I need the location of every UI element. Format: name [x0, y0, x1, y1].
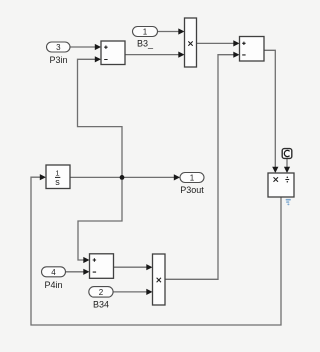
svg-text:B3_: B3_ [137, 39, 154, 49]
outport 1 oval P3out [180, 173, 204, 183]
arrowhead into Product1 input1 [178, 28, 184, 34]
wire Product2 to Sum2 minus input [165, 55, 235, 280]
arrowhead into Product2 input1 [146, 264, 152, 270]
divide block (x and divide) [268, 173, 294, 197]
svg-text:1: 1 [143, 28, 148, 37]
inport 1 oval B3_ [133, 27, 158, 37]
sum block Sum3 [90, 254, 114, 278]
junction node dot on integrator output [120, 175, 125, 180]
svg-text:P4in: P4in [44, 280, 62, 290]
arrowhead into Integrator [40, 174, 46, 180]
inport 2 oval B34 [89, 287, 113, 298]
svg-text:1: 1 [190, 174, 195, 183]
wire Sum1 to Product1 input2 [125, 54, 180, 56]
arrowhead into Divide input2 [284, 167, 290, 173]
wire Divide output feedback loop to Integrator [31, 177, 281, 325]
wire branch junction down to Sum3 plus input [78, 177, 122, 260]
integrator block 1/s [46, 165, 70, 189]
arrowhead into Sum3 plus [83, 257, 89, 263]
svg-text:P3in: P3in [49, 55, 67, 65]
signal logging badge (blue) [286, 199, 291, 205]
svg-text:B34: B34 [93, 300, 109, 310]
arrowhead into Sum2 minus [233, 52, 239, 58]
arrowhead into Sum3 minus [83, 269, 89, 275]
wire Product1 to Sum2 plus input [197, 42, 235, 44]
sum block Sum1 [101, 41, 125, 65]
svg-text:s: s [55, 177, 60, 187]
svg-text:P3out: P3out [180, 185, 204, 195]
svg-text:4: 4 [51, 268, 56, 277]
inport 3 oval [47, 42, 71, 52]
wire Sum2 to Divide input1 [264, 50, 275, 168]
wire B34 to Product2 input2 [113, 291, 148, 293]
arrowhead into Sum2 plus [233, 40, 239, 46]
svg-text:2: 2 [99, 288, 104, 297]
inport 4 oval [42, 267, 66, 277]
svg-text:3: 3 [56, 43, 61, 52]
product block Product1 [185, 18, 197, 67]
product block Product2 [153, 254, 166, 305]
wire Integrator to P3out [70, 176, 175, 178]
arrowhead into Sum1 minus [95, 56, 101, 62]
arrowhead into Product2 input2 [146, 289, 152, 295]
wire branch junction up to Sum1 minus input [78, 59, 123, 177]
arrowhead into Sum1 plus [95, 44, 101, 50]
arrowhead into Product1 input2 [178, 52, 184, 58]
arrowhead into P3out [174, 174, 180, 180]
wire C constant to Divide input2 [286, 159, 288, 169]
wire P3in to Sum1 plus input [70, 46, 96, 48]
wire Sum3 to Product2 input1 [114, 266, 148, 268]
wire B3_ to Product1 input1 [158, 31, 180, 33]
arrowhead into Divide input1 [272, 167, 278, 173]
wire P4in to Sum3 minus input [66, 271, 85, 273]
constant block C [282, 149, 292, 159]
sum block Sum2 [240, 37, 265, 62]
